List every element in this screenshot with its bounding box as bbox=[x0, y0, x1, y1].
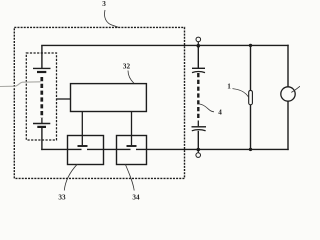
top terminal stub bbox=[197, 42, 199, 46]
capacitor lower plate (curved) bbox=[192, 72, 205, 73]
inner dashed box (battery module) bbox=[26, 53, 56, 140]
svg-text:4: 4 bbox=[218, 108, 222, 116]
gray leader to battery from left edge bbox=[0, 82, 41, 87]
battery top cell long plate bbox=[33, 67, 51, 69]
battery series dashed line bbox=[40, 77, 43, 118]
leader from load circle bbox=[291, 86, 300, 92]
bottom terminal stub bbox=[197, 149, 199, 152]
branch 4 mid stub bbox=[197, 121, 199, 127]
block 34 bbox=[117, 136, 147, 165]
svg-text:32: 32 bbox=[123, 62, 131, 70]
motor/load circle 2 bbox=[281, 87, 295, 101]
top terminal circle bbox=[196, 37, 201, 42]
lower capacitor bottom plate (curved) bbox=[192, 130, 206, 131]
right vertical wire upper bbox=[287, 45, 289, 87]
junction dot fuse bottom bbox=[249, 148, 252, 151]
leader for label 3 bbox=[105, 10, 119, 28]
fuse branch wire bbox=[250, 45, 252, 149]
outer dashed box 3 bbox=[14, 27, 184, 178]
capacitor branch 4 bbox=[192, 45, 207, 149]
svg-text:34: 34 bbox=[132, 193, 140, 200]
capacitor top plate bbox=[192, 67, 205, 69]
junction dot bottom of branch 4 bbox=[197, 148, 201, 152]
block 32 bbox=[71, 84, 147, 112]
leader for label 4 bbox=[200, 104, 215, 112]
top wire bbox=[41, 44, 289, 46]
junction dot fuse top bbox=[249, 44, 252, 47]
branch 4 series dashed line bbox=[197, 73, 199, 121]
branch 4 bottom stub bbox=[197, 131, 199, 150]
leader for label 32 bbox=[128, 71, 134, 84]
leader for label 33 bbox=[64, 164, 77, 190]
battery bottom stub bbox=[41, 118, 43, 123]
svg-text:1: 1 bbox=[227, 83, 231, 91]
leader for label 34 bbox=[125, 164, 134, 190]
battery top stub wire bbox=[41, 45, 43, 68]
right vertical wire lower bbox=[287, 101, 289, 150]
battery bottom cell long plate bbox=[33, 123, 50, 125]
battery bottom wire bbox=[41, 128, 43, 150]
lower capacitor top plate bbox=[192, 126, 207, 128]
battery bottom cell short plate bbox=[37, 126, 46, 128]
bottom wire segment left bbox=[41, 148, 81, 150]
junction dot top of branch 4 bbox=[197, 44, 201, 48]
battery stack bbox=[33, 45, 51, 150]
branch 4 top stub bbox=[197, 45, 199, 68]
bottom wire segment right bbox=[136, 148, 289, 150]
bottom terminal circle bbox=[196, 153, 201, 158]
block 33 bbox=[68, 136, 104, 165]
wire 32 to contact 34 bbox=[131, 112, 133, 146]
contact bar in 34 bbox=[127, 145, 137, 147]
contact bar in 33 bbox=[78, 145, 88, 147]
wire 32 to contact 33 bbox=[81, 112, 83, 146]
fuse 1 body bbox=[249, 90, 253, 104]
battery top cell short plate bbox=[37, 71, 46, 73]
bottom wire segment middle bbox=[87, 148, 131, 150]
svg-text:3: 3 bbox=[102, 0, 106, 8]
leader for label 1 bbox=[233, 89, 249, 98]
wire battery module to block 32 bbox=[57, 98, 71, 100]
svg-text:33: 33 bbox=[58, 193, 66, 200]
